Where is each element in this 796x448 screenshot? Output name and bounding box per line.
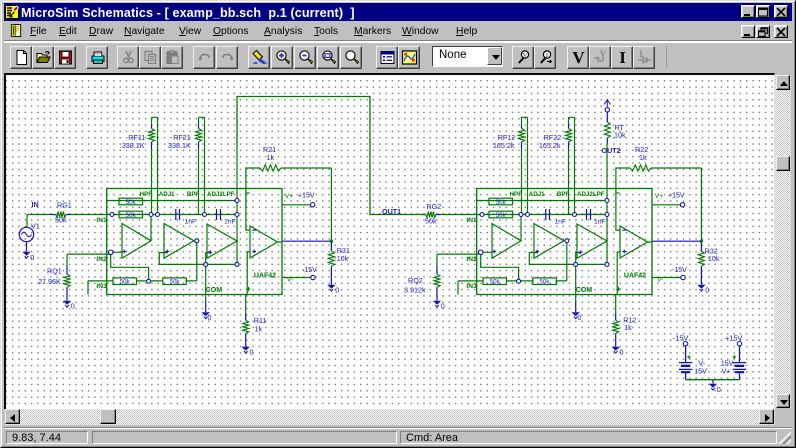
svg-text:RG2: RG2 xyxy=(427,202,442,211)
svg-text:338.1K: 338.1K xyxy=(122,141,145,150)
svg-text:15V: 15V xyxy=(694,366,707,375)
svg-text:0: 0 xyxy=(30,253,34,262)
svg-text:50k: 50k xyxy=(425,216,437,225)
svg-text:165.2k: 165.2k xyxy=(539,141,561,150)
svg-text:50k: 50k xyxy=(55,215,67,224)
svg-text:1k: 1k xyxy=(255,324,263,333)
svg-text:I: I xyxy=(619,49,626,66)
svg-text:338.1K: 338.1K xyxy=(168,141,191,150)
svg-text:V: V xyxy=(523,52,528,59)
svg-text:RG1: RG1 xyxy=(57,200,72,209)
svg-text:1k: 1k xyxy=(267,153,275,162)
svg-text:1k: 1k xyxy=(639,153,647,162)
svg-text:+15V: +15V xyxy=(725,333,743,342)
svg-text:RQ2: RQ2 xyxy=(408,276,423,285)
svg-text:27.96K: 27.96K xyxy=(38,277,61,286)
svg-text:V1: V1 xyxy=(31,221,40,230)
svg-text:165.2k: 165.2k xyxy=(493,141,515,150)
svg-text:3.912k: 3.912k xyxy=(404,285,426,294)
svg-text:V: V xyxy=(572,49,585,66)
svg-text:IN: IN xyxy=(32,199,39,208)
svg-text:V+: V+ xyxy=(722,366,731,375)
svg-text:0: 0 xyxy=(717,385,721,394)
svg-text:OUT1: OUT1 xyxy=(382,207,401,216)
svg-text:10k: 10k xyxy=(708,254,720,263)
svg-text:I: I xyxy=(546,52,548,59)
svg-text:RQ1: RQ1 xyxy=(47,266,62,275)
svg-text:10k: 10k xyxy=(614,130,626,139)
svg-text:-15V: -15V xyxy=(673,333,689,342)
svg-text:R11: R11 xyxy=(254,315,267,324)
svg-text:OUT2: OUT2 xyxy=(602,146,621,155)
svg-text:1k: 1k xyxy=(624,323,632,332)
svg-text:10k: 10k xyxy=(337,253,349,262)
